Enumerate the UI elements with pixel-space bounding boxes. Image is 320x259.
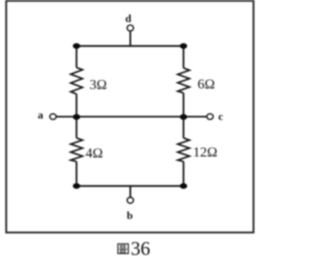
svg-text:4Ω: 4Ω [86, 147, 103, 162]
svg-text:36: 36 [131, 239, 151, 259]
svg-text:6Ω: 6Ω [198, 77, 215, 92]
svg-text:12Ω: 12Ω [193, 146, 217, 161]
svg-text:3Ω: 3Ω [90, 78, 107, 93]
svg-text:a: a [38, 109, 44, 121]
svg-text:c: c [218, 111, 223, 123]
svg-text:b: b [127, 210, 133, 222]
svg-text:d: d [125, 13, 131, 25]
